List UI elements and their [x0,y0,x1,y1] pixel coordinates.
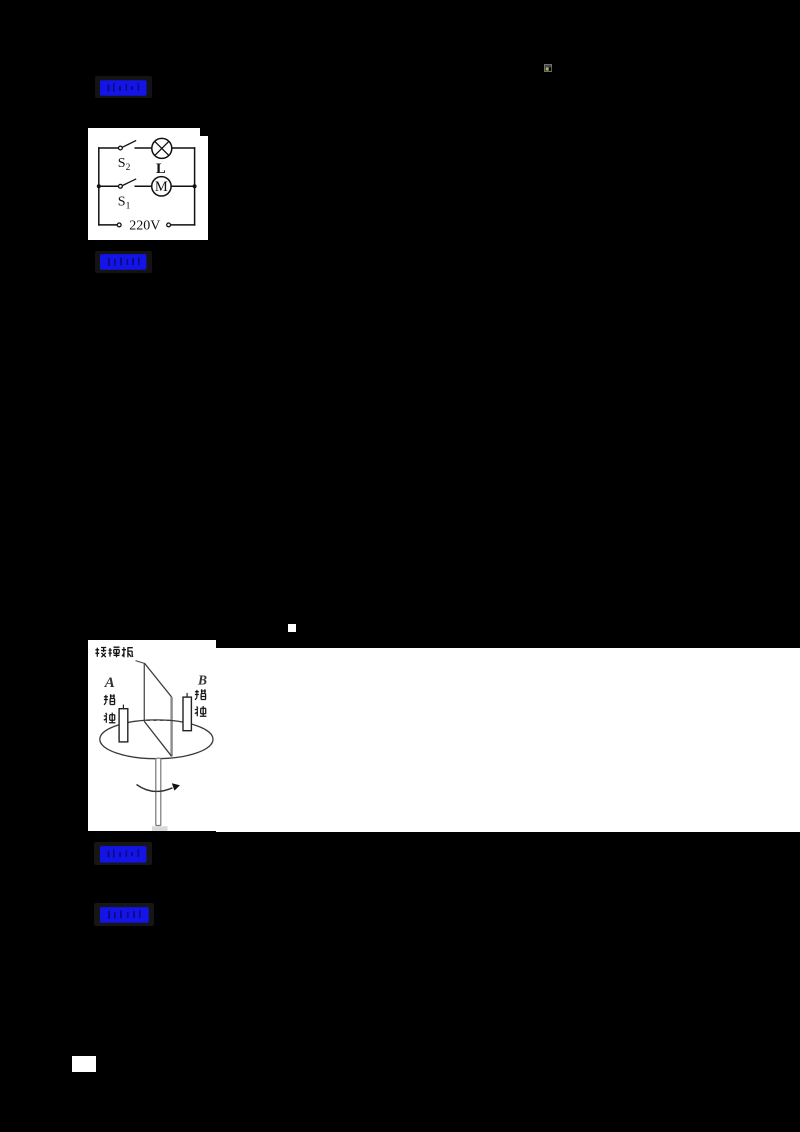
svg-text:L: L [156,160,166,176]
svg-text:220V: 220V [129,218,160,233]
svg-text:S2: S2 [118,156,131,173]
svg-text:B: B [197,673,207,688]
svg-text:A: A [104,675,115,691]
svg-text:S1: S1 [118,194,131,211]
svg-text:M: M [155,179,168,195]
